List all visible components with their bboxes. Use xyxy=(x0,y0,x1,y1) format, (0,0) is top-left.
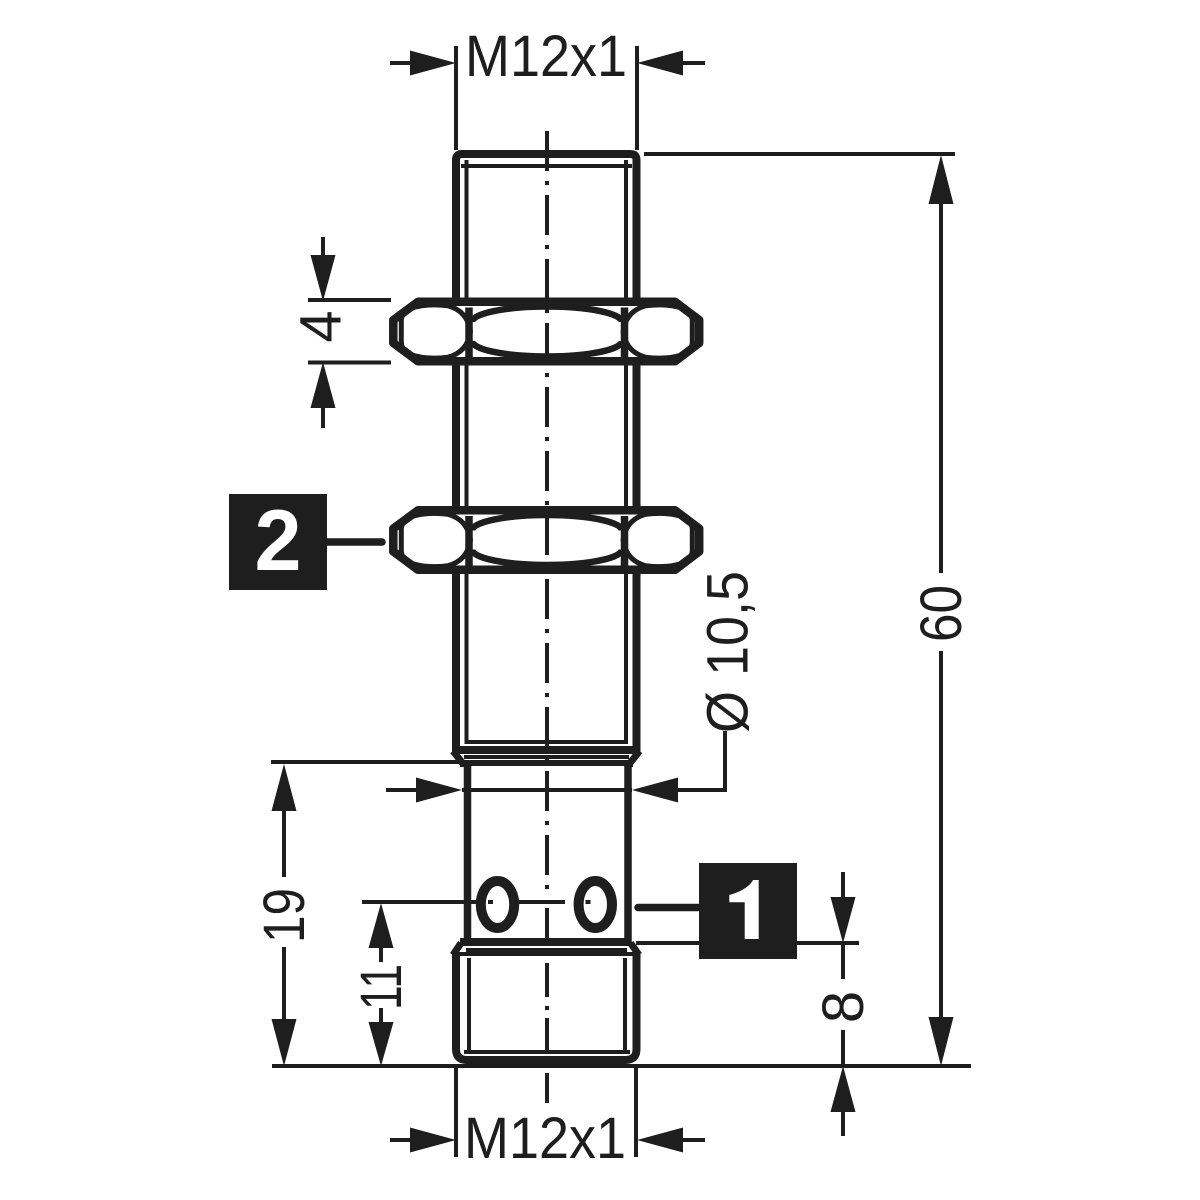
transition chamfer diagonals xyxy=(453,751,640,763)
sensor body: upper threaded barrel M12 xyxy=(456,154,637,748)
extension line dim 19 top xyxy=(271,760,459,764)
center line (vertical axis, lower part) xyxy=(545,908,549,1103)
dim Ø10.5 line through body xyxy=(462,788,632,792)
nut 1 right facet xyxy=(623,305,692,358)
svg-text:60: 60 xyxy=(909,585,974,642)
leader line of label 2 xyxy=(327,538,382,546)
thread minor-diameter line right (upper barrel) xyxy=(624,160,628,744)
LED window right xyxy=(579,881,612,928)
dim M12x1 bottom right arrow xyxy=(678,1138,705,1142)
dim M12x1 top right arrow xyxy=(678,61,705,65)
dim Ø10.5 leader elbow xyxy=(675,731,725,790)
transition thin line xyxy=(464,755,629,759)
extension line for 60 at top xyxy=(644,152,955,156)
nut 2 middle facet chamfer arcs xyxy=(472,515,622,531)
narrow tube (Ø10.5 section) xyxy=(471,766,624,940)
nut 1 hex edge left xyxy=(465,308,473,358)
dim 8 lower tail xyxy=(841,1110,845,1136)
dim 11 top arrow xyxy=(369,903,394,948)
extension line top M12x1 right xyxy=(635,46,639,150)
transition shoulder: barrel bottom face xyxy=(452,746,641,754)
svg-text:11: 11 xyxy=(349,964,414,1010)
dim M12x1 bottom left arrow xyxy=(390,1138,415,1142)
leader line of label 1 xyxy=(638,904,700,912)
center line (vertical axis, upper part) xyxy=(545,131,549,894)
nut 1 middle facet chamfer arcs xyxy=(472,307,622,323)
bottom transition: tube bottom face xyxy=(460,938,632,946)
nut 2 hex edge right xyxy=(621,516,629,566)
top chamfer line xyxy=(461,164,632,168)
nut 1 hex edge right xyxy=(621,308,629,358)
dim Ø10.5 left arrow xyxy=(386,788,421,792)
transition shoulder: thread end thin line xyxy=(467,740,627,744)
dim 8 inner segment lower xyxy=(841,1030,845,1066)
dim 11 line lower segment xyxy=(379,1008,383,1026)
dim 11 bottom arrow xyxy=(369,1022,394,1066)
label 1 black box xyxy=(699,863,797,959)
dim 60 top arrow xyxy=(929,155,954,204)
dim 60 line lower segment xyxy=(939,651,943,1020)
extension line top M12x1 left xyxy=(454,46,458,150)
svg-text:19: 19 xyxy=(252,888,317,943)
bottom transition thin line xyxy=(466,948,627,952)
svg-text:Ø 10,5: Ø 10,5 xyxy=(696,571,761,733)
nut 2 left facet xyxy=(401,513,470,566)
extension line dim 8 top xyxy=(636,941,859,945)
narrow tube top face xyxy=(460,760,633,767)
collar thread minor line right xyxy=(623,958,627,1052)
label 2 black box xyxy=(229,494,327,590)
hex nut 2 outer silhouette xyxy=(393,510,699,570)
extension line bottom M12x1 right xyxy=(634,1068,638,1157)
label 1 digit xyxy=(729,880,758,939)
LED window left xyxy=(481,881,514,928)
svg-text:4: 4 xyxy=(289,310,354,342)
svg-text:2: 2 xyxy=(255,493,302,589)
extension line nut top (dim 4) xyxy=(308,298,391,302)
dim 8 top arrow xyxy=(831,897,856,943)
dim 60 bottom arrow xyxy=(929,1017,954,1066)
svg-text:8: 8 xyxy=(811,991,876,1023)
hex nut 1 outer silhouette xyxy=(393,302,699,362)
narrow tube right wall xyxy=(624,762,632,944)
dim 19 line lower segment xyxy=(282,947,286,1020)
extension line nut bottom (dim 4) xyxy=(308,361,391,365)
dim 19 bottom arrow xyxy=(272,1019,297,1066)
dim 19 top arrow xyxy=(272,764,297,811)
dim 4 bottom arrow xyxy=(321,407,325,428)
collar bottom chamfer line xyxy=(464,1050,630,1054)
LED center dash left xyxy=(488,900,493,904)
lower threaded collar outline xyxy=(456,956,637,1060)
common bottom extension line xyxy=(272,1064,971,1068)
extension line dim 11 top xyxy=(362,900,476,904)
dim 11 line upper segment xyxy=(379,944,383,962)
lower threaded collar M12 top face xyxy=(452,952,641,960)
nut 2 hex edge left xyxy=(465,516,473,566)
collar thread minor line left xyxy=(467,958,471,1052)
narrow tube left wall xyxy=(464,762,472,944)
LED center dash right xyxy=(586,900,591,904)
dim M12x1 top left arrow xyxy=(390,61,415,65)
dim 60 line upper segment xyxy=(939,200,943,573)
nut 1 left facet xyxy=(401,305,470,358)
svg-text:M12x1: M12x1 xyxy=(464,1106,626,1171)
bottom transition chamfer diagonals xyxy=(453,943,639,955)
LED horizontal center line segment xyxy=(519,900,565,904)
svg-text:M12x1: M12x1 xyxy=(465,24,627,89)
dim Ø10.5 right arrow xyxy=(632,778,678,803)
dim 8 bottom arrow xyxy=(831,1066,856,1112)
dim 19 line upper segment xyxy=(282,806,286,877)
dim 8 inner segment upper xyxy=(841,943,845,979)
thread minor-diameter line left (upper barrel) xyxy=(465,160,469,744)
dim 8 upper tail xyxy=(841,872,845,899)
nut 2 right facet xyxy=(623,513,692,566)
extension line bottom M12x1 left xyxy=(454,1068,458,1157)
dim 4 top arrow xyxy=(321,237,325,258)
